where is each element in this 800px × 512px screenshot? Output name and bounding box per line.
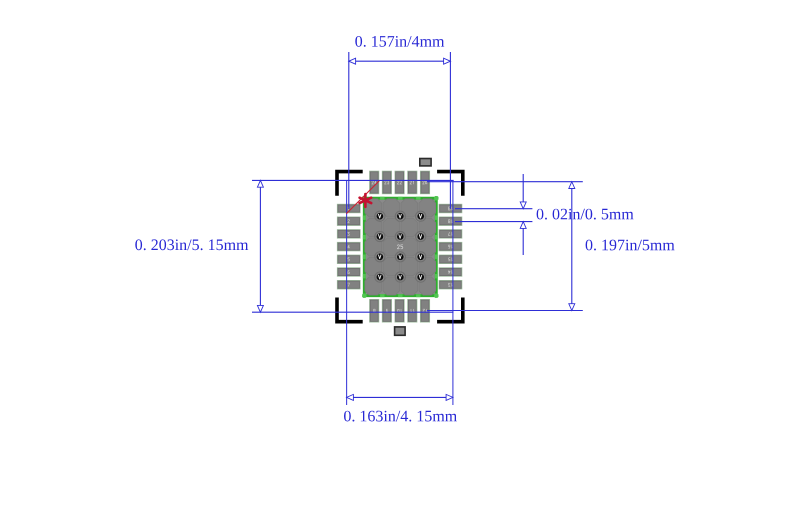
dimension 0.157in/4mm extension line left [348,52,350,209]
dimension 0.157in/4mm extension line right [449,52,451,209]
dimension label 0.02in/0.5mm [537,209,634,220]
pad 19 (right side) [439,204,462,212]
pad 21 (top side) [408,171,417,193]
thermal pad paste grid 4x5 [365,199,436,295]
pad 11 (bottom side) [408,300,417,322]
dimension label 0.197in/5mm [586,240,675,251]
pad 3 (left side) [337,230,360,238]
extension line top (left dim, 5.15mm) [252,179,454,181]
pitch reference line pad 19 [455,208,532,210]
bottom orientation marker rectangle [395,327,406,335]
pad 20 (top side) [421,171,430,193]
pitch reference line pad 18 [455,221,532,223]
pad 13 (right side) [439,281,462,289]
courtyard corner bracket top-left [335,170,363,196]
pad 12 (bottom side) [421,300,430,322]
pin 1 indicator line (red) [346,181,379,214]
via V6 [416,231,426,241]
dimension 0.163in/4.15mm extension line left [346,181,348,405]
pad 8 (bottom side) [370,300,379,322]
thermal pad number 25 [397,245,403,249]
pad 6 (left side) [337,268,360,276]
pad 5 (left side) [337,255,360,263]
extension line bottom (right dim, 5mm) [427,310,583,312]
pad 10 (bottom side) [395,300,404,322]
thermal pad border seam notches (bright green) [362,196,438,298]
via V1 [375,211,385,221]
via V12 [416,272,426,282]
courtyard corner bracket bottom-left [335,298,363,324]
pad 2 (left side) [337,217,360,225]
via V2 [395,211,405,221]
courtyard corner bracket bottom-right [437,298,465,324]
pitch dimension vertical below [522,222,524,255]
extension line top (right dim, 5mm) [427,181,583,183]
dimension label 0.203in/5.15mm [135,239,248,250]
dimension 0.203in/5.15mm arrow line [259,180,261,312]
pin 1 marker asterisk (red) [360,194,372,207]
dimension label 0.163in/4.15mm [344,411,457,422]
dimension 0.163in/4.15mm extension line right [452,181,454,405]
via V4 [375,231,385,241]
top orientation marker rectangle [420,159,431,166]
via V8 [395,252,405,262]
via V9 [416,252,426,262]
via V10 [375,272,385,282]
pad 15 (right side) [439,255,462,263]
extension line bottom (left dim, 5.15mm) [252,311,454,313]
courtyard corner bracket top-right [437,170,465,196]
via V3 [416,211,426,221]
pad 4 (left side) [337,242,360,250]
via V7 [375,252,385,262]
pad 17 (right side) [439,230,462,238]
pad 23 (top side) [382,171,391,193]
pad 9 (bottom side) [382,300,391,322]
pad 18 (right side) [439,217,462,225]
pad 7 (left side) [337,281,360,289]
pad 14 (right side) [439,268,462,276]
pad 24 (top side) [370,171,379,193]
pad 1 (left side) [337,204,360,212]
thermal pad 25 outline (green) [364,198,436,296]
pad 22 (top side) [395,171,404,193]
dimension label 0.157in/4mm [355,36,444,47]
pad 16 (right side) [439,242,462,250]
dimension 0.163in/4.15mm arrow line [347,396,453,398]
dimension 0.157in/4mm arrow line [349,60,451,62]
pitch dimension vertical above [522,174,524,209]
via V11 [395,272,405,282]
via V5 [395,231,405,241]
dimension 0.197in/5mm arrow line [571,182,573,311]
